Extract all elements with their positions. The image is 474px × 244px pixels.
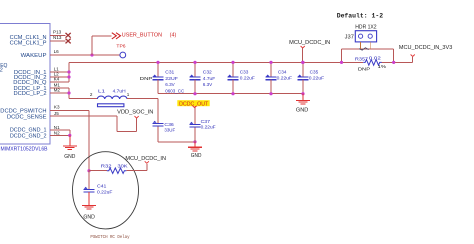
svg-text:30K: 30K [117,164,128,170]
svg-text:DCDC_GND_2: DCDC_GND_2 [10,133,47,139]
svg-text:N13: N13 [53,35,62,40]
junction C34 on bus [269,61,272,64]
svg-text:MCU_DCDC_IN: MCU_DCDC_IN [289,40,330,46]
junction C34 bottom [269,92,272,95]
svg-text:1: 1 [127,92,130,97]
svg-text:DNP: DNP [358,67,370,73]
wire C32 bottom [194,80,196,94]
wire WAKEUP pin L6 to TP6 [50,54,120,56]
wire C34 bottom [270,80,272,94]
wire C36 vertical top [157,98,159,123]
ground below C41 [82,192,96,209]
wire USER_BUTTON horizontal [92,35,111,37]
svg-text:DCDC_LP_2: DCDC_LP_2 [14,91,47,97]
svg-text:0.22uF: 0.22uF [240,75,255,81]
svg-text:Default: 1-2: Default: 1-2 [337,12,384,20]
svg-text:C35: C35 [310,70,319,76]
wire C32 top [194,62,196,77]
wire J37 pin 1 stub [360,42,362,49]
svg-text:N2: N2 [54,131,60,136]
svg-text:K3: K3 [54,105,60,110]
svg-text:DNP: DNP [140,76,153,82]
wire C36 vertical bottom [157,126,159,142]
wire bus end up to label [412,57,414,62]
net label tick MCU_DCDC_IN [301,46,305,48]
wire C31 bottom [157,80,159,94]
wire R32 right lead [126,170,146,172]
svg-text:N1: N1 [54,125,60,130]
capacitor C33 [228,75,239,80]
svg-text:22UF: 22UF [165,76,178,82]
svg-text:4.7uF: 4.7uF [203,76,215,82]
off-page connector USER_BUTTON [112,33,121,39]
junction label stub on bus [301,61,304,64]
wire J37 loop top branch [342,48,394,50]
wire sense down [116,116,118,131]
svg-text:0.22uF: 0.22uF [97,189,112,195]
wire L1 pin1 to C36 [127,97,158,99]
no-connect X on CCM_CLK1_P [66,39,71,44]
svg-text:0.22uF: 0.22uF [309,75,324,81]
svg-text:MCU_DCDC_IN_3V3: MCU_DCDC_IN_3V3 [399,45,453,51]
wire DCDC_GND_1 stub N1 [50,129,70,131]
IC U1 MIMXRT1052DVL6B [0,24,50,144]
junction C32 on bus [193,61,196,64]
junction C35 on bus [301,61,304,64]
connector J37 HDR 1X2 [355,31,376,42]
wire C36/C37 bottom to gnd junction [158,141,195,143]
svg-text:33UF: 33UF [164,128,175,134]
junction J37 left on bus [340,61,343,64]
wire DCDC_IN vertical tie [68,62,70,82]
svg-text:R32: R32 [101,164,112,170]
capacitor C35 [298,75,309,80]
pin joint marks J37 [359,48,369,50]
svg-text:HDR 1X2: HDR 1X2 [355,25,376,31]
junction J37 right on bus [392,61,395,64]
wire pin N13 CCM_CLK1_P stub [50,40,66,42]
wire R32 left lead [89,170,107,172]
wire DCDC_IN_Q stub K4 [50,81,69,83]
wire bottom bus of cap bank [158,93,303,95]
svg-text:R357: R357 [355,56,369,62]
svg-text:C36: C36 [164,122,174,128]
wire J37 pin 2 stub [369,42,371,49]
capacitor C31 [153,75,164,80]
svg-text:GND: GND [64,154,75,160]
wire J37 loop right vertical [393,49,395,62]
wire sense up to label [136,119,138,132]
ground below C37 [188,142,202,151]
capacitor C32 [190,75,201,80]
svg-text:4.7uH: 4.7uH [113,89,127,95]
junction C37 bottom / GND [193,140,196,143]
svg-text:GND: GND [83,214,95,220]
svg-text:6.3V: 6.3V [165,82,175,88]
junction DCDC_IN_1 [67,70,70,73]
junction DCDC_IN_2 [67,75,70,78]
svg-text:0603_CC: 0603_CC [165,88,184,94]
svg-text:C32: C32 [203,70,212,76]
svg-text:0.22uF: 0.22uF [201,124,216,130]
wire main bus MCU_DCDC_IN net (left of R357) [69,61,363,63]
capacitor C36 33UF [153,121,164,126]
svg-text:C33: C33 [240,70,249,76]
wire C41 vertical bottom [88,191,90,193]
svg-text:6.3V: 6.3V [203,82,213,88]
wire C35 bottom [302,80,304,94]
svg-text:L1: L1 [98,89,105,95]
net label tick MCU_DCDC_IN (RC delay) [145,161,149,163]
svg-text:MCU_DCDC_IN: MCU_DCDC_IN [125,156,166,162]
svg-text:DCDC_SENSE: DCDC_SENSE [7,114,47,120]
wire DCDC_GND_2 stub N2 [50,134,70,136]
svg-text:C37: C37 [201,119,211,125]
wire MCU_DCDC_IN label stub [302,48,304,63]
wire DCDC_LP_1 stub M1 [50,87,69,89]
wire DCDC_LP_2 stub M2 [50,92,69,94]
svg-text:0.22uF: 0.22uF [277,75,292,81]
svg-text:L6: L6 [54,49,60,54]
no-connect X on CCM_CLK1_N [66,33,71,38]
wire C33 bottom [232,80,234,94]
wire DCDC_IN_2 stub L2 [50,76,69,78]
junction WAKEUP branch [90,53,93,56]
junction GND tap bottom bus [301,92,304,95]
svg-text:(4): (4) [170,33,177,39]
svg-text:0.02: 0.02 [369,56,381,62]
wire DCDC_LP vertical tie [68,88,70,98]
capacitor C41 0.22uF [84,187,95,192]
svg-text:C31: C31 [165,70,174,76]
capacitor C37 0.22uF [189,122,200,127]
net label tick DCDC_OUT [193,106,197,108]
wire DCDC_GND tie [69,130,71,136]
wire C34 top [270,62,272,77]
wire to inductor L1 pin 2 [69,97,97,99]
svg-text:USER_BUTTON: USER_BUTTON [122,33,162,39]
net label tick MCU_DCDC_IN_3V3 [411,55,415,57]
svg-text:CCM_CLK1_P: CCM_CLK1_P [10,40,47,46]
wire pin P13 CCM_CLK1_N stub [50,34,66,36]
resistor R32 30K [107,168,127,174]
junction DCDC_LP_2 [67,91,70,94]
test point TP6 [120,52,126,58]
wire DCDC_SENSE pin J5 [50,115,117,117]
svg-text:TP6: TP6 [116,43,126,49]
svg-text:P13: P13 [53,29,62,34]
wire DCDC_PSWITCH pin K3 [50,109,89,111]
wire WAKEUP vertical to USER_BUTTON [91,36,93,55]
resistor R357 0.02 (on bus) [363,60,381,66]
svg-text:WAKEUP: WAKEUP [21,53,47,59]
svg-text:J37: J37 [345,35,354,41]
wire sense across [117,130,136,132]
wire DCDC_PSWITCH vertical to RC delay [88,110,90,170]
wire C41 vertical top [88,171,90,190]
inductor L1 4.7uH [97,96,127,107]
junction R32/C41 node [87,169,90,172]
svg-text:MIMXRT1052DVL6B: MIMXRT1052DVL6B [1,146,49,152]
wire C37 vertical bottom [194,127,196,142]
annotation ellipse PSWITCH RC Delay [73,152,139,229]
ground below DCDC_GND pins [63,135,77,149]
wire up to MCU_DCDC_IN label [146,164,148,171]
junction C33 on bus [231,61,234,64]
svg-text:1%: 1% [378,64,388,70]
junction DCDC_GND [68,134,71,137]
svg-text:2: 2 [0,68,3,74]
svg-text:GND: GND [191,153,202,159]
junction C32 bottom [193,92,196,95]
svg-text:2: 2 [90,92,93,97]
ground below C35 [296,94,310,104]
wire DCDC_IN_1 stub L1 [50,71,69,73]
svg-text:GND: GND [296,108,309,114]
wire C37 vertical top [194,108,196,125]
svg-text:C34: C34 [278,70,287,76]
svg-text:DCDC_OUT: DCDC_OUT [179,101,209,107]
svg-text:C41: C41 [97,183,107,189]
capacitor C34 [266,75,277,80]
junction C33 bottom [231,92,234,95]
svg-text:VDD_SOC_IN: VDD_SOC_IN [117,110,154,116]
net label tick VDD_SOC_IN [135,116,139,118]
wire main bus MCU_DCDC_IN_3V3 net (right of R357) [382,61,413,63]
net label DCDC_OUT (highlighted) [177,100,209,107]
svg-text:PSWITCH RC Delay: PSWITCH RC Delay [90,235,130,240]
wire C35 top [302,62,304,77]
wire J37 loop left vertical [341,49,343,62]
junction C31 on bus [156,61,159,64]
wire C31 top [157,62,159,77]
svg-text:J5: J5 [54,111,59,116]
wire C33 top [232,62,234,77]
